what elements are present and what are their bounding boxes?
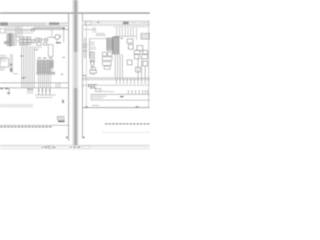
box C4 <box>90 70 97 73</box>
title text block <box>96 34 106 36</box>
vertical wire right <box>63 29 65 43</box>
long wire L1 <box>0 82 68 84</box>
funnel label <box>91 73 96 75</box>
wire top bus 2 <box>5 28 68 30</box>
fuse F1 <box>10 64 13 66</box>
wire drops from TB2 <box>38 74 50 88</box>
module box B4 <box>134 50 140 54</box>
header drop wires <box>84 27 96 33</box>
module box B1 <box>127 39 133 43</box>
notes box <box>91 94 150 100</box>
box E1 <box>96 89 102 92</box>
module box B2 <box>128 44 133 49</box>
connector J1 <box>0 29 5 34</box>
power bus upper <box>82 77 150 79</box>
margin note 2 <box>61 74 63 75</box>
column header text row <box>114 26 148 28</box>
connector column P2 <box>113 37 119 54</box>
long wire L2 <box>0 87 68 89</box>
arrow drops <box>38 88 51 95</box>
bottom wire <box>35 94 56 96</box>
label under box <box>0 69 18 74</box>
relay array K2 backplate <box>37 60 54 73</box>
right page drawing bottom border <box>82 107 150 109</box>
box C1 <box>102 52 112 56</box>
wire to motor <box>48 36 55 38</box>
top rule line <box>0 12 150 14</box>
right page number <box>83 137 85 139</box>
pager prev icon <box>42 147 43 148</box>
wire bus rows <box>5 28 33 33</box>
distribution bus <box>115 35 136 37</box>
margin note 3 <box>62 100 64 103</box>
footer mark left <box>86 106 88 108</box>
margin wire tags <box>83 45 88 52</box>
module box B5 <box>143 50 148 54</box>
margin note 1 <box>63 57 65 58</box>
wire drop left <box>8 88 10 95</box>
lower component boxes <box>37 43 47 46</box>
node ticks <box>22 77 26 80</box>
box C3b <box>104 66 110 69</box>
cable duct box <box>90 52 94 62</box>
zoom dropdown <box>83 146 90 149</box>
vertical wire bus <box>22 46 35 94</box>
bus taps <box>116 78 148 84</box>
box D2 <box>134 55 139 59</box>
relay array K2 labels <box>38 57 53 59</box>
connector column P1 <box>107 38 112 51</box>
aux box <box>32 29 35 32</box>
ground stubs <box>27 88 33 90</box>
arrow ticks row <box>128 90 147 94</box>
margin sense wires <box>84 38 85 58</box>
motor lead down <box>56 39 58 44</box>
junction stamp <box>56 42 61 44</box>
wire labels row <box>83 84 150 86</box>
box D1 <box>127 60 132 65</box>
wire labels on L1 <box>0 88 8 90</box>
bottom labels <box>36 97 53 99</box>
relay K1 labels <box>20 44 28 46</box>
box D3 <box>142 55 148 59</box>
terminal strip TB1 <box>4 33 19 46</box>
box C2 <box>102 57 112 61</box>
fuse F2 <box>10 68 13 72</box>
relay contact grid K1 <box>20 37 31 45</box>
right page header band <box>82 21 150 25</box>
revision stamp <box>58 120 65 122</box>
wire row <box>32 39 48 41</box>
power bus lower <box>82 79 150 81</box>
left page right border <box>67 13 70 141</box>
bottom toolbar <box>0 145 150 150</box>
pager page field <box>45 146 53 148</box>
control box U1 <box>0 58 9 67</box>
page gutter shadow <box>73 0 79 145</box>
right page left border <box>81 13 84 138</box>
box C3 <box>102 62 111 66</box>
relay array K2 contacts <box>37 60 53 72</box>
bus labels <box>116 37 123 39</box>
footer text <box>92 104 99 106</box>
faint smudge band <box>0 104 33 108</box>
revision box <box>57 116 64 120</box>
box D5 <box>143 61 148 66</box>
text row above notes <box>98 90 114 92</box>
fuse chain wires <box>11 54 13 73</box>
right vertical harness <box>138 58 145 78</box>
right page drawing right border <box>148 21 150 108</box>
left vertical harness <box>115 54 122 78</box>
amplifier funnel <box>90 62 94 68</box>
tall box <box>48 45 53 57</box>
wire drop <box>51 29 53 37</box>
left page drawing bottom border <box>0 124 69 126</box>
footer mark right <box>136 106 139 107</box>
text block K <box>88 85 97 88</box>
right page caption <box>105 123 150 125</box>
bus tick labels <box>20 55 23 57</box>
left page header title band <box>0 22 68 26</box>
bus label text <box>35 26 62 28</box>
module box B3 <box>137 46 143 51</box>
box under funnel <box>91 67 95 70</box>
contactor boxes row <box>32 38 48 43</box>
box D4 <box>136 67 141 72</box>
inner margin line <box>85 21 87 108</box>
spare drops <box>56 83 60 88</box>
wire top bus <box>33 27 64 29</box>
main unit box A1 <box>90 39 107 58</box>
margin wire label <box>83 75 86 77</box>
node tick <box>63 27 65 29</box>
motor M1 <box>55 35 62 40</box>
note stamp <box>120 96 124 98</box>
vertical wires from header <box>16 26 22 37</box>
wires from header <box>117 28 137 40</box>
terminal strip TB2 <box>37 72 55 74</box>
box at right edge <box>141 34 150 40</box>
jumper dash <box>7 92 10 94</box>
left page caption <box>0 126 52 128</box>
left page number <box>66 137 68 139</box>
pin labels column <box>91 42 97 49</box>
right page paper bottom shadow <box>102 131 150 133</box>
label text block <box>0 55 7 58</box>
bus tick label 2 <box>34 49 38 51</box>
pager total pages <box>53 147 55 148</box>
zoom controls <box>70 147 80 148</box>
label dashes <box>32 43 42 48</box>
